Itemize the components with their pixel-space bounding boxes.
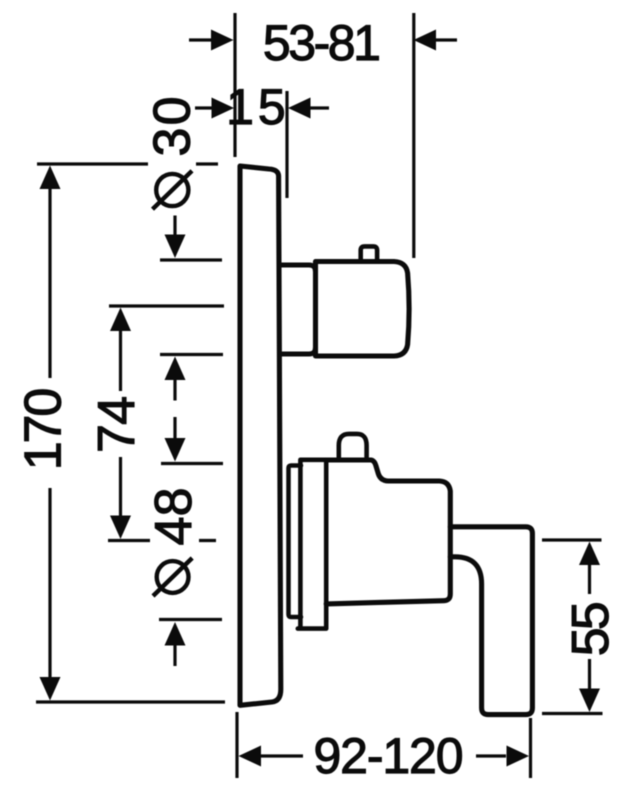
svg-text:53-81: 53-81 [263,15,381,71]
svg-text:74: 74 [88,396,146,453]
svg-text:30: 30 [144,97,202,157]
svg-text:5: 5 [258,79,286,135]
svg-text:1: 1 [226,79,254,135]
svg-text:170: 170 [15,388,73,471]
svg-text:55: 55 [562,601,620,656]
svg-text:92-120: 92-120 [314,728,464,784]
svg-text:48: 48 [145,488,203,546]
